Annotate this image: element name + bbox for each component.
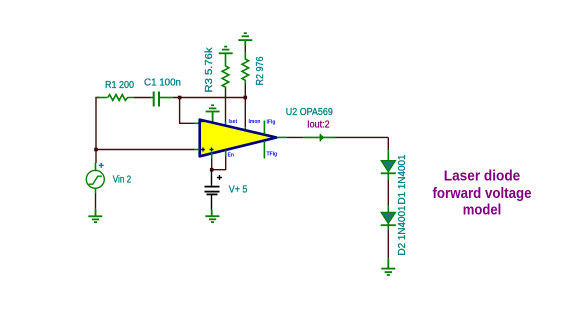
svg-text:R3 5.76k: R3 5.76k bbox=[204, 47, 215, 93]
battery V+ lead bottom bbox=[211, 195, 213, 210]
current arrow marker bbox=[304, 134, 336, 142]
diode D2 lead bottom bbox=[387, 223, 389, 230]
diode D1 cathode bar bbox=[381, 172, 396, 174]
diode D2 lead top bbox=[387, 206, 389, 213]
svg-text:En: En bbox=[228, 153, 234, 159]
ground below Vin bbox=[88, 209, 102, 222]
wire: D1 to D2 bbox=[387, 180, 389, 206]
battery V+ plus mark bbox=[217, 175, 222, 180]
junction: battery node dot bbox=[210, 168, 214, 172]
non-inverting input lead bbox=[194, 149, 200, 151]
diode D2 cathode bar bbox=[381, 224, 396, 226]
svg-text:IFlg: IFlg bbox=[267, 120, 276, 126]
op-amp minus sign bbox=[201, 120, 204, 122]
capacitor C1 bbox=[151, 92, 173, 107]
wire: V- pin down bbox=[211, 159, 213, 170]
resistor R3 bbox=[222, 53, 229, 88]
source Vin lead bottom bbox=[95, 188, 97, 194]
svg-text:model: model bbox=[463, 202, 502, 218]
junction: Vin tee dot bbox=[94, 148, 98, 152]
svg-text:Iout:2: Iout:2 bbox=[307, 119, 330, 130]
svg-text:Imon: Imon bbox=[249, 119, 261, 125]
wire: output to arrow bbox=[287, 136, 304, 138]
wire: R2 to op-amp pin Imon bbox=[244, 84, 246, 127]
diode D2 bbox=[381, 212, 395, 223]
wire: D2 to ground bbox=[387, 230, 389, 258]
op-amp plus signs bbox=[201, 148, 214, 152]
annotation: Laser diode caption bbox=[433, 168, 532, 218]
pin stub V- (to battery) bbox=[211, 153, 213, 159]
wire: R2 ground stem bbox=[244, 46, 246, 53]
wire: Vin to ground bbox=[95, 194, 97, 209]
wire: R3 to op-amp pin Iset bbox=[225, 89, 227, 122]
pin stub TFlg bbox=[263, 141, 265, 159]
source Vin waveform bbox=[89, 176, 102, 184]
ground above op-amp (flipped) bbox=[206, 105, 220, 123]
diode D1 lead top bbox=[387, 150, 389, 161]
wire: En pin to battery node bbox=[212, 157, 226, 170]
pin stub En down bbox=[225, 151, 227, 157]
ground above R2 (flipped) bbox=[238, 33, 252, 45]
svg-text:Iset: Iset bbox=[229, 119, 238, 125]
source Vin circle bbox=[86, 170, 104, 188]
svg-text:D1 1N4001: D1 1N4001 bbox=[397, 154, 408, 204]
svg-text:Vin 2: Vin 2 bbox=[113, 175, 132, 186]
source Vin plus mark bbox=[99, 163, 104, 168]
source Vin lead top bbox=[95, 163, 97, 172]
wire: corner down to D1 bbox=[387, 137, 389, 150]
resistor R1 bbox=[97, 95, 135, 101]
wire: C1 to R2 node bbox=[173, 97, 246, 99]
diode D1 lead bottom bbox=[387, 172, 389, 180]
pin stub IFlg bbox=[263, 121, 265, 135]
junction: R2 node dot bbox=[244, 96, 248, 100]
op-amp output lead bbox=[278, 136, 287, 138]
wire: drop to inverting input bbox=[180, 98, 194, 124]
diode D1 bbox=[381, 161, 395, 172]
svg-text:R2 976: R2 976 bbox=[255, 56, 266, 85]
op-amp U2 triangle bbox=[200, 120, 277, 157]
resistor R2 bbox=[242, 52, 249, 85]
svg-text:V+ 5: V+ 5 bbox=[229, 184, 248, 195]
junction: feedback tee bbox=[178, 96, 182, 100]
pin stub Imon bbox=[244, 127, 246, 131]
ground below D2 bbox=[381, 258, 395, 275]
svg-text:U2 OPA569: U2 OPA569 bbox=[286, 107, 333, 118]
svg-text:C1 100n: C1 100n bbox=[144, 77, 181, 88]
wire: non-inverting input rail bbox=[96, 149, 194, 151]
battery V+ lead top bbox=[211, 170, 213, 186]
svg-text:TFlg: TFlg bbox=[267, 152, 278, 158]
pin stub Iset bbox=[225, 122, 227, 129]
ground above R3 (flipped) bbox=[219, 47, 233, 54]
svg-text:R1 200: R1 200 bbox=[105, 80, 134, 91]
wire: arrow to corner bbox=[336, 136, 389, 138]
wire: inverting input lead bbox=[194, 122, 200, 124]
wire: R1 to C1 bbox=[134, 97, 151, 99]
svg-text:forward voltage: forward voltage bbox=[433, 186, 532, 202]
svg-text:Laser diode: Laser diode bbox=[444, 168, 521, 184]
wire: top feedback rail left segment bbox=[96, 98, 100, 164]
svg-text:D2 1N4001: D2 1N4001 bbox=[397, 205, 408, 255]
battery V+ plates bbox=[205, 187, 220, 195]
ground below battery bbox=[205, 210, 219, 222]
